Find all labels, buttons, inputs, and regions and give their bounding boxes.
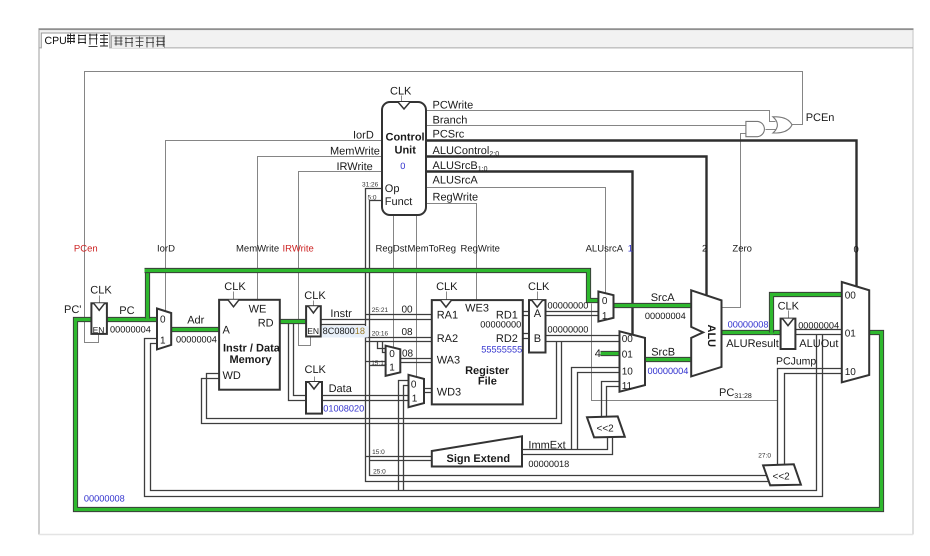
svg-text:SrcB: SrcB	[651, 347, 675, 359]
svg-text:0: 0	[854, 244, 859, 255]
bus B to Memory WD	[202, 342, 562, 424]
svg-text:0: 0	[602, 296, 608, 307]
svg-text:IorD: IorD	[353, 130, 374, 142]
svg-text:CLK: CLK	[778, 300, 800, 312]
svg-text:IRWrite: IRWrite	[283, 243, 314, 254]
sign extend	[432, 436, 522, 466]
bus Adr green	[172, 327, 220, 332]
svg-text:Funct: Funct	[385, 196, 413, 208]
svg-text:PCWrite: PCWrite	[433, 100, 474, 112]
tab glyphs CJK row 2	[115, 37, 165, 48]
svg-text:RA1: RA1	[437, 310, 458, 322]
bus instr 25:21 to RA1	[366, 315, 432, 320]
labels instruction field splits	[371, 304, 771, 475]
svg-text:55555555: 55555555	[481, 344, 522, 354]
svg-text:00000008: 00000008	[84, 494, 125, 504]
svg-text:Memory: Memory	[230, 354, 273, 366]
svg-text:00000004: 00000004	[798, 320, 839, 330]
svg-text:0: 0	[389, 349, 395, 360]
register file	[432, 281, 523, 405]
bus PC riser green to top run	[145, 271, 150, 319]
svg-text:SrcA: SrcA	[651, 292, 676, 304]
control unit U1	[362, 86, 426, 216]
bus SrcB green	[646, 357, 692, 362]
svg-text:Unit: Unit	[395, 145, 417, 157]
svg-text:31:26: 31:26	[362, 182, 379, 189]
svg-text:MemWrite: MemWrite	[330, 146, 380, 158]
wire IorD	[166, 141, 383, 312]
register Data	[305, 364, 327, 414]
shifter <<2 lower	[763, 464, 801, 485]
svg-text:25:21: 25:21	[372, 307, 389, 314]
svg-text:<<2: <<2	[773, 472, 791, 483]
svg-text:Instr: Instr	[330, 308, 352, 320]
svg-text:WE: WE	[249, 304, 267, 316]
svg-text:PCen: PCen	[74, 243, 98, 254]
wire PC31:28	[592, 304, 778, 401]
svg-text:0: 0	[400, 161, 405, 171]
bus 20:16 branch to RegDst mux in0	[378, 342, 386, 353]
svg-text:Adr: Adr	[187, 314, 204, 326]
wire PCWrite	[427, 111, 776, 122]
svg-text:RegWrite: RegWrite	[433, 191, 479, 203]
svg-text:CLK: CLK	[436, 281, 458, 293]
alu	[691, 290, 721, 376]
svg-text:2: 2	[702, 243, 707, 254]
wire PCSrc (2-bit thick)	[427, 141, 857, 287]
svg-text:ImmExt: ImmExt	[528, 440, 565, 452]
mux MemToReg (WD3)	[409, 375, 425, 407]
svg-text:ALU: ALU	[705, 325, 717, 348]
bus ImmExt riser to SrcB mux in10	[572, 368, 620, 450]
bus PC out green	[107, 317, 158, 322]
svg-text:CLK: CLK	[390, 86, 412, 98]
wire RegWrite	[427, 204, 477, 301]
svg-text:15:11: 15:11	[371, 360, 387, 367]
bus Data reg out to WD3 mux in1	[323, 396, 409, 401]
labels signal name row	[74, 243, 859, 255]
svg-text:20:16: 20:16	[372, 331, 389, 338]
mux SrcA	[598, 292, 613, 323]
labels control unit outputs	[433, 100, 835, 204]
svg-text:00000004: 00000004	[645, 311, 686, 321]
svg-text:Sign Extend: Sign Extend	[447, 453, 511, 465]
svg-text:00000000: 00000000	[480, 319, 521, 329]
svg-text:Op: Op	[385, 183, 400, 195]
shifter <<2 upper	[587, 416, 625, 437]
svg-text:0: 0	[160, 315, 166, 326]
svg-text:RegDst: RegDst	[376, 243, 408, 254]
labels A/B values	[548, 301, 589, 335]
svg-text:1: 1	[602, 311, 608, 322]
bus instr 15:0 to Sign Extend	[366, 457, 432, 461]
bus Instr from IR with Op/Funct risers and 25:0 run	[321, 189, 770, 482]
svg-text:RegWrite: RegWrite	[461, 243, 500, 254]
svg-text:00000004: 00000004	[176, 335, 217, 345]
labels sign extend area	[528, 440, 569, 469]
register PC	[90, 285, 112, 336]
svg-text:WD: WD	[223, 370, 241, 382]
bus RD1 to A	[523, 312, 530, 316]
bus shifted imm to SrcB mux in11	[602, 382, 620, 418]
svg-text:CLK: CLK	[305, 364, 327, 376]
svg-text:<<2: <<2	[597, 424, 615, 435]
register IR	[304, 290, 326, 337]
wire MemToReg	[416, 216, 418, 378]
svg-text:1: 1	[389, 362, 395, 373]
label bottom green value	[84, 494, 125, 504]
svg-text:00: 00	[622, 334, 634, 345]
svg-text:IRWrite: IRWrite	[337, 161, 373, 173]
svg-text:00000000: 00000000	[548, 325, 589, 335]
svg-text:CLK: CLK	[528, 281, 550, 293]
svg-text:ALUControl2:0: ALUControl2:0	[433, 145, 500, 158]
register A/B	[528, 281, 550, 353]
bus PC top run green to SrcA mux in0	[145, 271, 599, 301]
bus Memory RD to IR green	[280, 319, 306, 324]
svg-text:08: 08	[402, 348, 414, 359]
bus WA3	[401, 359, 432, 363]
svg-text:RA2: RA2	[437, 333, 458, 345]
register ALUOut	[778, 300, 800, 349]
svg-text:01: 01	[622, 350, 634, 361]
bus constant 4 green	[601, 351, 620, 356]
bus SrcA green	[614, 303, 692, 308]
svg-text:10: 10	[622, 367, 634, 378]
bus ALUOut long loop to IorD mux in1	[145, 335, 823, 497]
svg-text:EN: EN	[307, 326, 319, 336]
svg-text:00000004: 00000004	[648, 366, 689, 376]
tab: virtual experiment board (unselected)	[111, 36, 164, 48]
svg-text:WE3: WE3	[465, 303, 489, 315]
tab glyphs CJK row 1	[67, 34, 108, 47]
svg-text:00000000: 00000000	[548, 301, 589, 311]
and gate	[746, 121, 777, 136]
svg-text:00: 00	[402, 304, 414, 315]
bus RD2 to B	[523, 334, 530, 339]
svg-text:4: 4	[595, 348, 601, 360]
wire ALUSrcA	[427, 188, 606, 294]
labels control unit inputs	[330, 130, 380, 173]
svg-text:27:0: 27:0	[758, 453, 771, 460]
tab: CPU datapath (selected)	[41, 33, 110, 49]
bus WD3 mux in0 riser from ALUOut loop	[399, 381, 409, 491]
svg-text:01: 01	[845, 329, 857, 340]
wire RegDst	[393, 216, 395, 348]
svg-text:08: 08	[402, 327, 414, 338]
svg-text:CLK: CLK	[224, 281, 246, 293]
svg-text:PCSrc: PCSrc	[433, 129, 465, 141]
svg-text:8C080018: 8C080018	[323, 326, 365, 336]
labels ALU area	[595, 292, 839, 400]
svg-text:PC: PC	[119, 305, 134, 317]
bus PCJump riser to PCSrc mux in10	[778, 369, 842, 466]
svg-text:11: 11	[622, 381, 633, 392]
bus WD3 mux out to RegFile WD3	[425, 389, 432, 393]
svg-text:00000004: 00000004	[110, 324, 151, 334]
svg-text:Instr / Data: Instr / Data	[223, 343, 281, 355]
svg-text:5:0: 5:0	[368, 195, 377, 202]
bus instr 15:11 to RegDst mux in1	[366, 362, 386, 366]
bus ALUResult green to ALUOut reg	[722, 330, 781, 335]
or gate	[773, 117, 792, 133]
bus RD to Data register	[289, 324, 307, 401]
bus B out to SrcB mux in00	[546, 336, 620, 342]
svg-text:B: B	[534, 333, 541, 345]
svg-text:WA3: WA3	[437, 355, 460, 367]
labels left datapath	[64, 304, 368, 413]
wire MemWrite	[258, 157, 383, 300]
svg-text:CLK: CLK	[304, 290, 326, 302]
svg-text:A: A	[534, 308, 542, 320]
mux IorD	[157, 309, 171, 350]
svg-text:1: 1	[412, 394, 418, 405]
bus ImmExt from Sign Extend to shifter	[523, 438, 613, 455]
wire PCEn net: OR output to PC EN	[85, 72, 803, 343]
svg-text:ALUOut: ALUOut	[799, 338, 838, 350]
bus ALUOut reg out to PCSrc mux in01	[796, 330, 842, 335]
mux SrcB	[620, 331, 646, 392]
svg-text:00: 00	[845, 291, 857, 302]
svg-text:Control: Control	[386, 132, 425, 144]
svg-text:MemToReg: MemToReg	[408, 243, 457, 254]
bus ALUResult green branch to PCSrc mux in00	[772, 295, 842, 335]
svg-text:A: A	[223, 324, 231, 336]
svg-text:Branch: Branch	[433, 115, 468, 127]
svg-text:ALUResult: ALUResult	[726, 338, 779, 350]
bus instr 20:16 to RA2	[366, 338, 432, 342]
wire ALUSrcB (2-bit thick)	[427, 172, 633, 335]
mux RegDst	[386, 346, 401, 376]
svg-text:1: 1	[160, 335, 166, 346]
svg-text:1: 1	[628, 243, 633, 254]
wire Zero	[722, 134, 746, 308]
svg-text:WD3: WD3	[437, 386, 461, 398]
svg-text:10: 10	[845, 367, 857, 378]
svg-text:PC': PC'	[64, 304, 81, 316]
svg-text:0: 0	[411, 380, 417, 391]
mux PCSrc	[842, 282, 869, 382]
memory Instr/Data	[219, 281, 281, 389]
bus PCnext green loop: PCSrc mux out to PC input	[76, 320, 882, 510]
svg-text:File: File	[478, 375, 497, 387]
svg-text:CLK: CLK	[90, 285, 112, 297]
svg-text:01008020: 01008020	[323, 403, 364, 413]
svg-text:Data: Data	[329, 383, 353, 395]
svg-text:25:0: 25:0	[373, 468, 386, 475]
bus A out to SrcA mux in1	[546, 312, 599, 316]
svg-text:IorD: IorD	[157, 243, 175, 254]
svg-text:PCJump: PCJump	[776, 355, 816, 367]
svg-text:Zero: Zero	[732, 243, 752, 254]
svg-text:EN: EN	[93, 325, 105, 335]
svg-text:ALUSrcA: ALUSrcA	[433, 175, 479, 187]
wire Branch	[427, 125, 746, 127]
svg-text:00000018: 00000018	[528, 459, 569, 469]
svg-text:MemWrite: MemWrite	[236, 243, 279, 254]
svg-text:ALUsrcA: ALUsrcA	[586, 243, 624, 254]
svg-text:PCEn: PCEn	[806, 112, 835, 124]
wire IRWrite	[299, 172, 383, 346]
svg-text:15:0: 15:0	[372, 449, 385, 456]
wire CLK stubs	[100, 96, 789, 383]
svg-text:00000008: 00000008	[728, 319, 769, 329]
svg-text:RD2: RD2	[496, 333, 518, 345]
svg-text:RD: RD	[258, 318, 274, 330]
svg-text:CPU: CPU	[45, 35, 67, 47]
wire ALUControl (3-bit thick)	[427, 157, 707, 296]
